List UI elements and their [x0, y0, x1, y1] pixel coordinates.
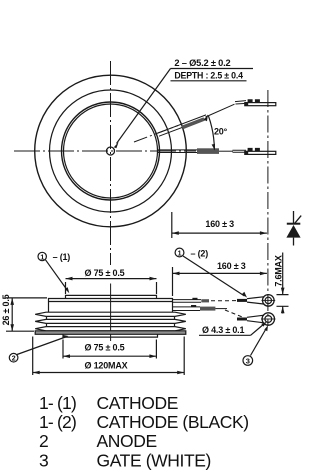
dim dia75 bottom extensions: [63, 340, 156, 359]
svg-text:2: 2: [12, 355, 16, 362]
dim dia75 bottom line: [63, 355, 156, 357]
side view top flange: [49, 299, 173, 313]
note leader to center hole: [117, 69, 171, 144]
svg-text:1- (1): 1- (1): [39, 393, 76, 413]
svg-text:7.6MAX: 7.6MAX: [274, 255, 284, 287]
upper ring terminal lug: [237, 295, 275, 307]
svg-text:Ø 75 ± 0.5: Ø 75 ± 0.5: [85, 268, 125, 278]
svg-text:Ø 4.3 ± 0.1: Ø 4.3 ± 0.1: [202, 325, 244, 335]
leader from circled 1 (top-right): [183, 256, 245, 296]
lower lead crimp sleeve: [197, 148, 219, 154]
center gate hole: [107, 147, 115, 155]
dim 7.6MAX line: [282, 253, 284, 295]
fin 1: [35, 312, 186, 316]
circled 1 top-right: [175, 248, 184, 257]
dim dia120 line: [33, 372, 185, 374]
circled 3: [243, 356, 253, 366]
dim dia120 extensions: [33, 337, 185, 376]
svg-text:Ø 75 ± 0.5: Ø 75 ± 0.5: [85, 343, 125, 353]
flange groove line: [49, 301, 173, 303]
upper gate lead wire (20 deg): [158, 115, 207, 136]
circled 2: [9, 353, 18, 362]
svg-text:– (2): – (2): [191, 249, 209, 259]
svg-text:2: 2: [39, 431, 48, 451]
svg-text:1- (2): 1- (2): [39, 412, 76, 432]
svg-text:20°: 20°: [214, 127, 228, 137]
lower faston terminal: [233, 148, 276, 155]
dim 160+-3 (top) line: [172, 232, 267, 234]
svg-text:26 ± 0.5: 26 ± 0.5: [1, 294, 11, 325]
top view pole face circle inner: [64, 104, 158, 198]
side view bottom pole face: [63, 334, 158, 337]
side view top pole face: [66, 295, 157, 298]
svg-text:3: 3: [246, 356, 250, 365]
dim 160+-3 (bottom) line: [173, 272, 267, 274]
legend: [39, 393, 249, 471]
fin gap edges 1: [47, 316, 175, 319]
svg-text:– (1): – (1): [53, 252, 71, 262]
svg-text:DEPTH : 2.5 ± 0.4: DEPTH : 2.5 ± 0.4: [174, 70, 243, 80]
side view upper lead (gate): [173, 298, 244, 303]
leader from circled 1 (top-left): [46, 260, 68, 291]
svg-text:1: 1: [40, 254, 44, 261]
leader for dia 4.3: [251, 324, 265, 336]
side view centerline: [110, 284, 112, 342]
side view lower lead (cathode ref): [173, 305, 246, 319]
upper lead crimp sleeve: [182, 117, 206, 129]
terminals centerline (dash-dot vertical): [267, 90, 269, 326]
dim 160+-3 (top) extension line: [171, 212, 173, 238]
lower lead thin wire to terminal: [219, 150, 233, 152]
bottom flange band: [35, 331, 186, 335]
svg-text:2 – Ø5.2 ± 0.2: 2 – Ø5.2 ± 0.2: [174, 58, 230, 68]
thyristor symbol: [286, 211, 301, 246]
svg-text:Ø 120MAX: Ø 120MAX: [85, 361, 128, 371]
top view outer circle (D120): [35, 75, 187, 227]
svg-text:160 ± 3: 160 ± 3: [205, 219, 234, 229]
fin 2: [35, 319, 186, 323]
dim 160+-3 (bottom) extension: [172, 267, 174, 296]
circled 1 top-left: [38, 252, 46, 260]
fin gap edges 2: [47, 323, 175, 326]
dim 26 line: [11, 298, 13, 331]
gate lead angled centerline: [134, 126, 178, 143]
note rule 1: [171, 68, 254, 70]
dim 26 extensions: [6, 298, 47, 331]
upper lead thin wire to terminal: [206, 104, 235, 117]
svg-text:CATHODE: CATHODE: [97, 393, 178, 413]
leader from circled 2: [17, 337, 66, 355]
svg-text:GATE (WHITE): GATE (WHITE): [97, 450, 211, 470]
top view horizontal centerline: [14, 150, 196, 152]
dim 7.6MAX extension lines: [277, 295, 289, 307]
dim dia75 top extensions: [66, 282, 157, 294]
dim dia75 top line: [66, 278, 157, 280]
lower lead wire: [157, 150, 219, 153]
svg-text:1: 1: [178, 250, 182, 257]
dia 4.3 underline: [199, 334, 251, 336]
svg-text:160 ± 3: 160 ± 3: [217, 261, 246, 271]
note rule 2: [171, 80, 247, 82]
upper faston terminal: [235, 99, 276, 106]
top view flange circle: [50, 90, 172, 212]
svg-text:ANODE: ANODE: [97, 431, 157, 451]
leader from circled 3: [251, 328, 267, 356]
top view vertical centerline: [110, 61, 112, 265]
fin 3: [35, 327, 186, 331]
svg-text:3: 3: [39, 450, 48, 470]
20 degree arc: [208, 116, 214, 150]
svg-text:CATHODE (BLACK): CATHODE (BLACK): [97, 412, 249, 432]
lower ring terminal lug: [237, 313, 276, 325]
top view pole face circle outer: [62, 102, 160, 200]
